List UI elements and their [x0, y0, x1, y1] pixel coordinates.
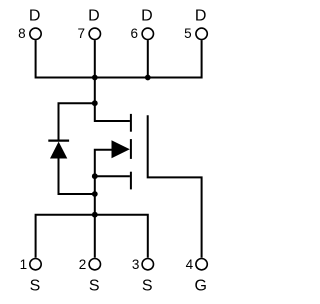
pin 3 terminal — [142, 259, 153, 270]
pin 5 terminal — [196, 28, 207, 39]
svg-text:D: D — [29, 8, 41, 25]
junction dot bus-pin7 — [92, 75, 98, 81]
svg-text:1: 1 — [20, 257, 28, 272]
junction dot diode top — [92, 100, 98, 106]
svg-text:G: G — [194, 278, 206, 295]
pin 6 terminal — [142, 28, 153, 39]
pin 1 terminal — [30, 259, 41, 270]
wire body-arrow corner, main source column down to pin2 — [95, 150, 113, 258]
wire gate electrode, gate run to pin4 — [148, 115, 202, 257]
junction dot source stub — [92, 173, 98, 179]
wire pin8 to top bus, top bus, pin5 drop — [36, 40, 202, 77]
svg-text:7: 7 — [77, 26, 85, 41]
svg-text:6: 6 — [130, 26, 138, 41]
diode D1 cathode bar — [48, 140, 69, 142]
wire diode top horizontal to bus column — [59, 103, 95, 139]
wire pin7 drop through bus down to drain stub, into channel top — [95, 40, 130, 121]
svg-text:D: D — [195, 8, 207, 25]
svg-text:S: S — [89, 278, 100, 295]
pin 8 terminal — [30, 28, 41, 39]
svg-text:D: D — [88, 8, 100, 25]
svg-text:S: S — [30, 278, 41, 295]
svg-text:3: 3 — [132, 257, 140, 272]
pin 2 terminal — [89, 259, 100, 270]
wire diode bottom to bus column — [59, 158, 95, 194]
junction dot bus-pin6 — [145, 75, 151, 81]
wire source stub — [95, 175, 130, 177]
svg-text:2: 2 — [79, 257, 87, 272]
pin 7 terminal — [89, 28, 100, 39]
transistor Q1 body arrow — [112, 140, 130, 158]
diode D1 anode triangle — [50, 142, 67, 159]
svg-text:8: 8 — [18, 26, 26, 41]
svg-text:5: 5 — [184, 26, 192, 41]
wire pin6 drop to bus — [147, 40, 149, 77]
junction dot diode bottom — [92, 191, 98, 197]
svg-text:D: D — [141, 8, 153, 25]
svg-text:S: S — [142, 278, 153, 295]
transistor Q1 channel dashes — [130, 114, 132, 189]
junction dot bottom bus — [92, 212, 98, 218]
wire bottom bus with pin1 and pin3 drops — [36, 215, 148, 258]
pin 4 terminal — [196, 259, 207, 270]
svg-text:4: 4 — [186, 257, 194, 272]
